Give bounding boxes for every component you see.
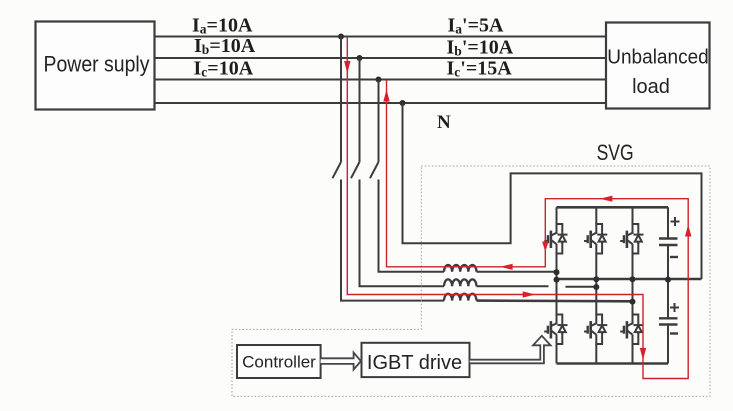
red arrow right row3 [523,291,536,297]
capacitor C1 [659,207,678,279]
label C1 plus [671,217,680,226]
node leg1 phase a [554,269,560,275]
IGBT drive box [362,343,470,377]
wire phase a drop lower [341,180,444,301]
hollow arrow drive to bridge [470,336,551,364]
wire phase b drop lower [360,180,445,287]
switch phase a [333,162,342,178]
node leg3 mid rail [630,276,636,282]
svg-text:Unbalanced: Unbalanced [607,47,709,69]
wire phase c drop lower [379,180,445,272]
IGBT Q2 top [584,224,607,254]
node leg3 phase c [630,299,636,305]
wire Lb toward leg2 with crossover gap [477,285,597,288]
node cap mid rail [665,277,671,283]
mid neutral rail [557,278,702,281]
inductor Lc [444,294,476,301]
node leg2 mid rail [593,276,599,282]
wire phase a drop upper [340,37,342,163]
red arrow down at x643 [640,348,646,360]
red arrow up on drop c [383,90,389,102]
svg-text:IGBT drive: IGBT drive [367,352,462,374]
wire leg2 [595,207,597,363]
wire neutral horizontal [155,102,607,104]
svg-text:Ic'=15A: Ic'=15A [447,58,513,80]
wire phase c drop upper [378,80,380,163]
switch phase b [351,162,360,178]
svg-text:Ib'=10A: Ib'=10A [447,37,514,59]
node phase a tap [338,34,344,40]
capacitor C2 [659,279,678,364]
bottom bridge negative rail [557,362,669,365]
red arrow left top loop [600,196,613,202]
svg dashed enclosure [232,166,710,396]
wire phase a horizontal [155,36,607,38]
wire La to leg1 [477,271,557,273]
unbalanced load box [606,23,710,109]
hollow arrow controller to drive [321,353,361,370]
red arrow down on drop a [344,61,350,74]
svg-text:load: load [632,76,670,98]
node leg1 mid rail [554,277,560,283]
node phase b tap [357,55,363,61]
wire leg3 [632,207,634,363]
wire phase b horizontal [155,57,607,59]
wire phase b drop upper [359,58,361,162]
wire Lc to bottom bridge rail [477,299,633,302]
node phase c tap [376,77,382,83]
power supply box [36,22,155,110]
inductor Lb [444,279,476,286]
red arrow up at x688 [685,225,691,237]
wire leg1 [556,207,558,363]
red wire loop a-to-c [347,37,688,379]
svg-text:Ia=10A: Ia=10A [192,14,253,36]
inductor La [444,265,476,272]
IGBT Q4 bottom [544,315,567,345]
svg-text:Ia'=5A: Ia'=5A [448,15,505,37]
svg-text:Power suply: Power suply [44,52,150,77]
svg-text:Ib=10A: Ib=10A [194,35,256,57]
node neutral tap [400,100,406,106]
switch phase c [370,162,379,178]
wire phase c horizontal [155,79,607,81]
label C2 plus [670,303,679,312]
red arrow left row1 [500,264,513,270]
IGBT Q3 top [620,224,643,254]
IGBT Q6 bottom [620,315,643,345]
svg-text:SVG: SVG [597,140,634,165]
svg-text:Ic=10A: Ic=10A [194,57,254,79]
red arrow down at x545 [542,242,548,252]
label C1 minus [670,256,678,258]
wire neutral to svg [403,103,702,279]
controller box [237,345,321,378]
IGBT Q1 top [544,224,567,254]
top bridge positive rail [557,206,669,209]
svg-text:N: N [437,112,451,133]
node leg2 phase b [593,284,599,290]
IGBT Q5 bottom [584,315,607,345]
svg-text:Controller: Controller [242,353,316,372]
label C2 minus [670,332,678,334]
